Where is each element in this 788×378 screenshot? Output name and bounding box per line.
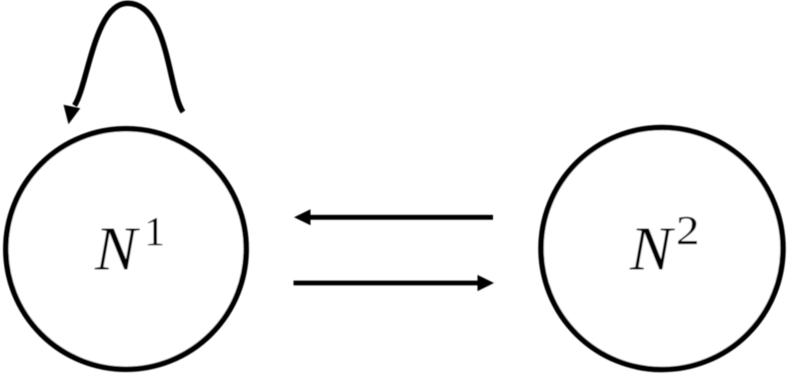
arrow N2 to N1 (upper, pointing left)	[309, 215, 493, 220]
svg-text:2: 2	[676, 207, 700, 253]
self-loop arc on N1	[75, 3, 184, 112]
node N2 circle	[541, 128, 783, 370]
svg-text:N: N	[629, 216, 676, 284]
svg-text:1: 1	[144, 208, 165, 254]
arrow N1 to N2 (lower, pointing right)	[294, 281, 479, 286]
self-loop arrowhead	[64, 105, 81, 124]
svg-text:N: N	[94, 216, 141, 284]
node N1 circle	[6, 129, 246, 369]
